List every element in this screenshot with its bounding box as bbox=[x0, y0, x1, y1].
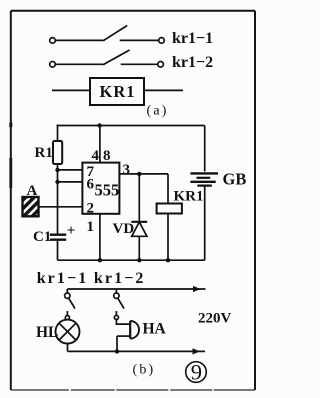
top rail bbox=[57, 125, 205, 127]
svg-text:(b): (b) bbox=[133, 363, 156, 378]
switch contact kr1-2 bbox=[50, 50, 164, 67]
wire A to pin2 bbox=[39, 206, 83, 208]
svg-text:kr1−2: kr1−2 bbox=[172, 54, 213, 71]
bottom rail bbox=[58, 259, 205, 261]
wire pin 3 bbox=[119, 173, 168, 175]
svg-text:KR1: KR1 bbox=[100, 82, 136, 101]
svg-text:+: + bbox=[67, 223, 76, 239]
figure number 9 circled bbox=[186, 362, 207, 383]
lamp HL bbox=[56, 311, 80, 351]
node dot VD/rail bbox=[137, 258, 141, 262]
svg-text:3: 3 bbox=[123, 162, 131, 178]
node dot 4/8 on top rail bbox=[97, 123, 101, 127]
svg-text:2: 2 bbox=[87, 201, 95, 217]
node dot relay/rail bbox=[166, 258, 170, 262]
wire pin 1 to bottom rail bbox=[99, 214, 101, 260]
wire pin7 bbox=[58, 169, 83, 171]
svg-text:HL: HL bbox=[36, 324, 58, 341]
node dot pin6 bbox=[55, 180, 59, 184]
svg-text:C1: C1 bbox=[33, 229, 51, 245]
svg-text:9: 9 bbox=[191, 360, 202, 385]
svg-text:8: 8 bbox=[103, 148, 111, 164]
battery GB bbox=[190, 126, 218, 261]
svg-text:555: 555 bbox=[95, 180, 120, 199]
relay coil KR1 (middle) bbox=[157, 174, 182, 260]
bell HA bbox=[114, 311, 139, 351]
sensor plate A bbox=[23, 197, 39, 216]
svg-text:kr1−1: kr1−1 bbox=[172, 30, 213, 47]
node dot pin1/rail bbox=[98, 258, 102, 262]
wire pins 4,8 to rail bbox=[99, 126, 101, 163]
svg-text:GB: GB bbox=[223, 170, 247, 189]
svg-text:4: 4 bbox=[92, 148, 100, 164]
relay coil KR1 (a) bbox=[52, 78, 183, 105]
220V line top with arrow bbox=[67, 288, 205, 290]
capacitor C1 bbox=[50, 235, 66, 261]
scan artifact ticks on left border bbox=[9, 123, 12, 128]
wire pin6 bbox=[58, 181, 83, 183]
node dot bell/bottom bbox=[115, 349, 119, 353]
node dot pin7 bbox=[55, 168, 59, 172]
svg-text:1: 1 bbox=[87, 219, 95, 235]
switch contact kr1-1 bbox=[50, 26, 165, 44]
op-amp U1 555 timer box bbox=[82, 163, 119, 214]
svg-text:kr1−1: kr1−1 bbox=[37, 270, 89, 287]
node dot VD top bbox=[137, 172, 141, 176]
svg-text:6: 6 bbox=[87, 177, 95, 193]
svg-text:HA: HA bbox=[143, 321, 167, 338]
diode VD bbox=[131, 174, 147, 260]
resistor R1 bbox=[53, 125, 62, 234]
svg-text:A: A bbox=[27, 183, 38, 199]
svg-text:VD: VD bbox=[113, 221, 135, 237]
switch kr1-1 (b) bbox=[65, 289, 75, 309]
svg-text:R1: R1 bbox=[35, 145, 53, 161]
svg-text:KR1: KR1 bbox=[174, 189, 204, 205]
switch kr1-2 (b) bbox=[114, 289, 124, 309]
border frame bbox=[11, 11, 255, 390]
svg-text:220V: 220V bbox=[198, 311, 232, 327]
svg-text:(a): (a) bbox=[147, 104, 169, 119]
svg-text:kr1−2: kr1−2 bbox=[94, 270, 146, 287]
220V line bottom with arrow bbox=[68, 350, 206, 352]
